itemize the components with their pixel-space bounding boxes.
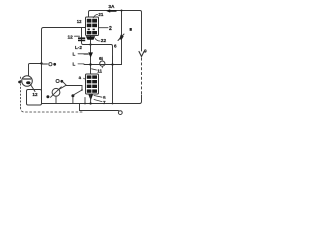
shield dashed bottom: [21, 107, 85, 112]
junction node at L2 drop: [112, 56, 114, 65]
wire top bus from T1 to right edge: [89, 11, 142, 52]
switch S3 arm: [71, 94, 74, 97]
lamp slash: [51, 87, 62, 98]
pointer to label 7: [94, 100, 102, 102]
wire mid vertical tuning line: [121, 11, 123, 65]
box K1 (unit at lower left): [27, 90, 42, 106]
jack J1 circle on AVC line: [100, 61, 105, 66]
svg-text:6I: 6I: [99, 56, 103, 61]
arrow blob under T2: [88, 95, 93, 101]
wire right vertical dashed lower part: [141, 58, 143, 95]
svg-text:6: 6: [114, 44, 117, 49]
jack J2 circle: [118, 111, 122, 115]
wire left vertical with top edge: [42, 28, 86, 104]
svg-text:2: 2: [109, 26, 112, 32]
trimmer blob under T1: [86, 36, 95, 40]
node on bus right: [112, 103, 114, 105]
node at L2 horizontal: [89, 43, 91, 45]
svg-text:L-2: L-2: [75, 45, 82, 50]
svg-text:3A: 3A: [108, 4, 115, 10]
shield dashed vertical: [20, 77, 22, 107]
svg-text:12: 12: [68, 35, 74, 41]
tube left cap dot: [18, 81, 21, 84]
grid arrowhead on vertical wire: [88, 52, 93, 57]
wire stub below bus to jack: [80, 104, 119, 111]
wire lamp to bus: [55, 96, 57, 103]
capacitor C1 blob on L2 drop: [78, 37, 85, 39]
node at left vertical: [40, 62, 42, 64]
wire short drop left of T2: [84, 98, 86, 104]
wire T2 bottom lead to bus: [90, 94, 92, 104]
svg-text:12: 12: [77, 19, 82, 24]
capacitor C-tune arrow on mid vertical: [118, 34, 124, 41]
wire T1 right lead: [99, 27, 109, 29]
T2 winding blobs: [87, 75, 97, 92]
wire T1 secondary down lead: [90, 36, 92, 75]
label a at T2 left: [83, 77, 86, 80]
node at tuning line top: [121, 10, 123, 12]
svg-text:a: a: [79, 75, 82, 80]
arrow blob under 3A: [106, 9, 117, 12]
lamp PL1: [52, 88, 60, 96]
ink speck: [130, 28, 132, 31]
pointer dash for label 12: [75, 35, 80, 37]
transformer T1 box: [86, 17, 99, 36]
svg-text:L: L: [73, 62, 76, 67]
wire tube cathode diagonal to box: [31, 85, 36, 92]
switch S2 contacts upper of lamp: [56, 79, 59, 82]
svg-text:L: L: [73, 51, 76, 56]
tube plate blob: [26, 81, 30, 84]
junction node at grid line: [89, 63, 91, 65]
wire main horizontal AVC line: [84, 64, 122, 66]
node on bus: [84, 103, 86, 105]
svg-text:7: 7: [103, 100, 106, 105]
wire L2 loop: left drop, horizontal, right drop to bus: [82, 28, 113, 104]
switch S1 contacts on tube line: [42, 63, 48, 65]
wire tube top lead: [29, 64, 42, 77]
wire cluster at junction: [59, 85, 67, 89]
wire bottom ground bus: [42, 103, 141, 105]
arrow down on right vertical: [139, 52, 144, 57]
wire S3 to bus: [72, 97, 74, 103]
T1 winding blobs: [87, 19, 97, 35]
svg-text:22: 22: [101, 38, 107, 44]
pointer dash label L top: [78, 53, 88, 55]
pointer from 22 label: [95, 39, 100, 41]
svg-text:12: 12: [32, 92, 38, 97]
transformer T2 box: [86, 74, 99, 94]
pointer to label a: [94, 96, 102, 98]
tube V1 envelope: [22, 76, 33, 87]
pointer label 2 at top: [93, 14, 98, 17]
lamp lower contact dot: [46, 95, 49, 98]
svg-text:11: 11: [97, 68, 102, 73]
pointer tick label 11: [92, 69, 97, 70]
pointer dash label L lower: [78, 63, 84, 65]
svg-text:21: 21: [98, 12, 103, 17]
svg-text:9: 9: [144, 49, 147, 55]
svg-text:a: a: [103, 94, 106, 99]
tube grid bar: [24, 78, 31, 80]
